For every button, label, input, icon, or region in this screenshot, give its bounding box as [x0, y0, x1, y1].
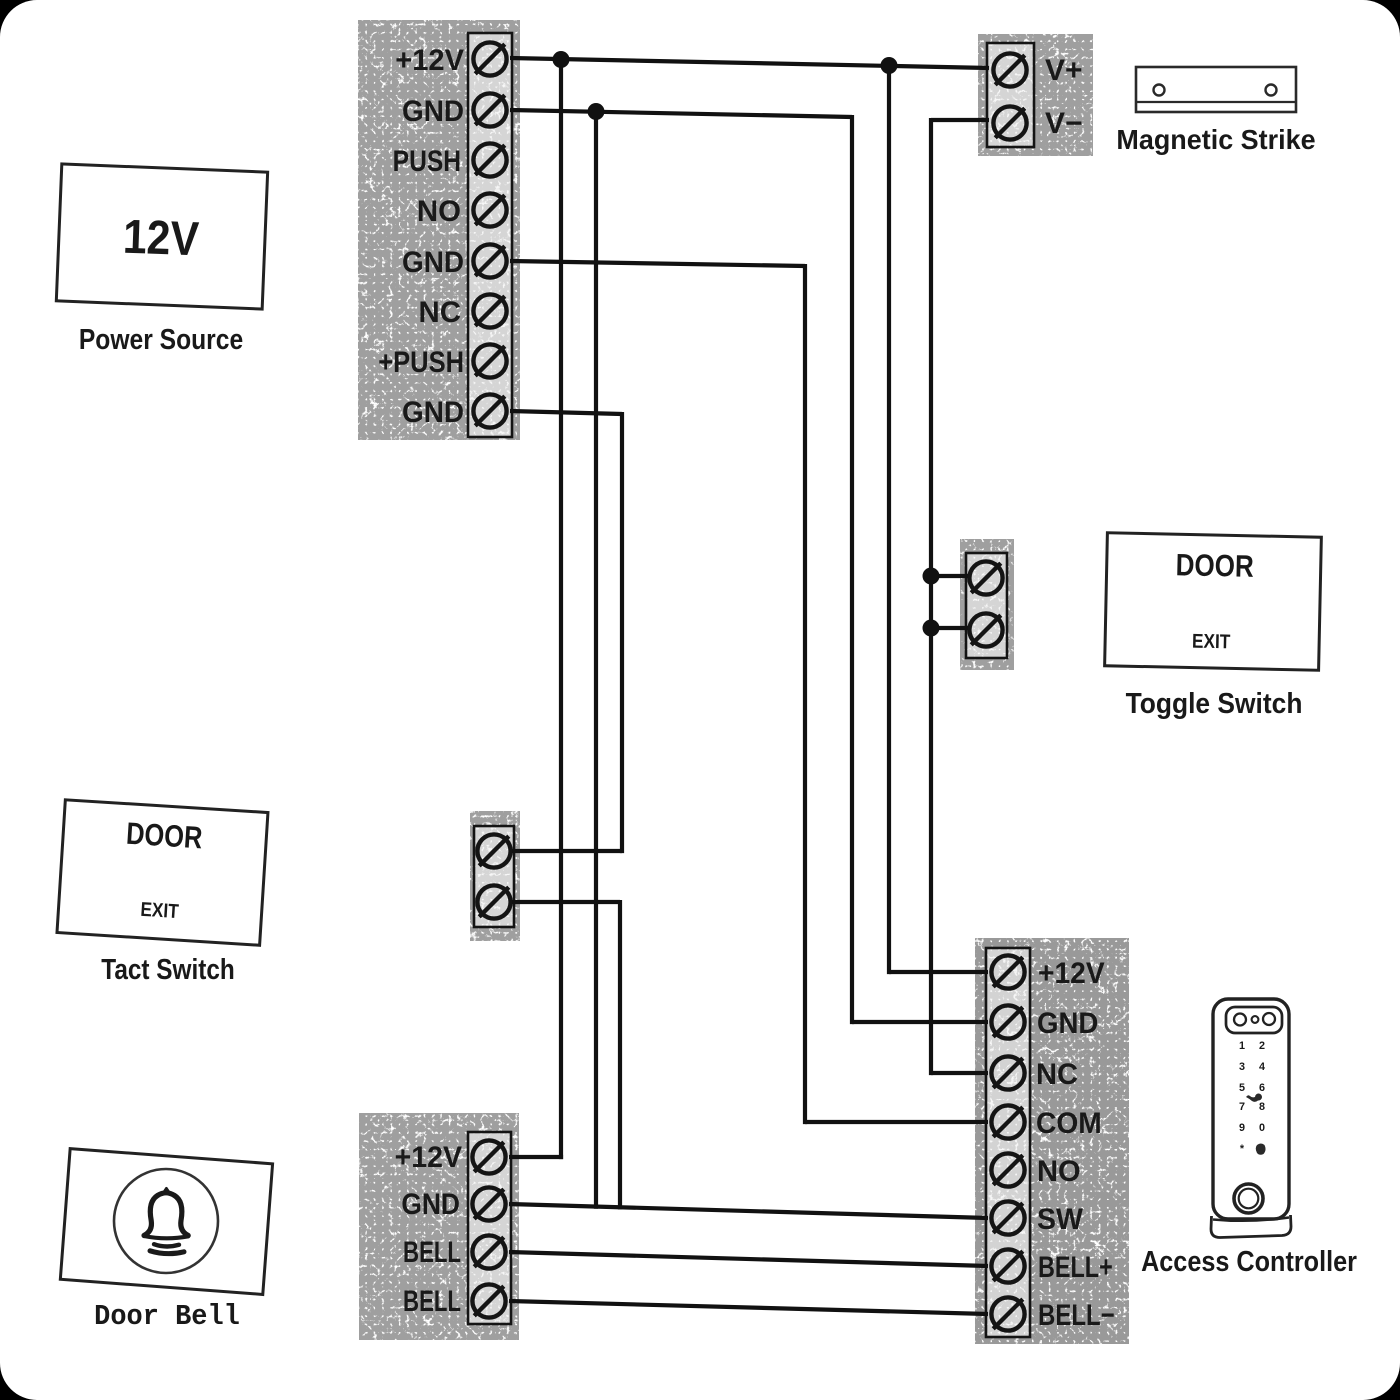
- J4 screws: [477, 834, 510, 918]
- wire J4 bottom vertical drop to SW bus: [618, 900, 622, 1210]
- J6 terminal strip: [986, 948, 1030, 1337]
- MS1 screw hole left: [1154, 85, 1165, 96]
- wire GND branch vertical to switch-return bus: [594, 110, 598, 1209]
- svg-text:+PUSH: +PUSH: [378, 345, 464, 378]
- wire +12V vertical drop to access controller J6: [887, 62, 891, 974]
- svg-text:GND: GND: [402, 396, 464, 429]
- U1 base pedestal: [1211, 1215, 1291, 1238]
- J3 terminal strip: [966, 553, 1007, 658]
- svg-text:7: 7: [1239, 1101, 1245, 1113]
- svg-text:NO: NO: [417, 195, 461, 228]
- svg-text:Power Source: Power Source: [79, 323, 243, 355]
- wire GND: J1 pin2 horizontal: [510, 110, 852, 117]
- svg-text:2: 2: [1259, 1040, 1265, 1052]
- svg-text:PUSH: PUSH: [393, 144, 461, 178]
- U1 sensor circle right: [1263, 1013, 1275, 1025]
- svg-text:Access Controller: Access Controller: [1141, 1244, 1357, 1277]
- wire GND stub into J6 pin GND: [852, 1020, 988, 1024]
- wire SW bus: doorbell GND to J6 SW: [509, 1204, 988, 1218]
- J4 terminal strip: [474, 826, 514, 927]
- U1 keypad digits: [1239, 1040, 1265, 1155]
- J3 screws: [969, 561, 1002, 646]
- svg-text:V−: V−: [1045, 107, 1083, 140]
- svg-text:5: 5: [1239, 1082, 1245, 1094]
- J5 speckled pad: [359, 1113, 519, 1340]
- wire BELL-: doorbell BELL to J6 BELL-: [509, 1301, 988, 1314]
- J1 terminal strip: [468, 33, 512, 437]
- junction dot +12V branch A: [553, 51, 570, 68]
- U1 bell button outer: [1234, 1184, 1263, 1213]
- svg-text:Toggle Switch: Toggle Switch: [1126, 687, 1303, 719]
- MS1 body plate: [1136, 67, 1296, 112]
- svg-text:+12V: +12V: [395, 1141, 463, 1174]
- J2 screws: [993, 53, 1026, 139]
- U1 body: [1213, 999, 1289, 1219]
- svg-text:EXIT: EXIT: [140, 898, 180, 923]
- svg-text:BELL: BELL: [403, 1284, 461, 1318]
- svg-text:GND: GND: [402, 246, 464, 279]
- svg-text:+12V: +12V: [395, 44, 464, 77]
- svg-text:DOOR: DOOR: [1175, 548, 1254, 584]
- J4 speckled pad: [470, 811, 520, 941]
- U1 hash key blob: [1256, 1144, 1266, 1155]
- wire +12V: controller J1 pin1 to strike V+ (horizontal): [510, 58, 989, 68]
- svg-text:GND: GND: [402, 95, 464, 128]
- wire +12V stub into J6 pin +12V: [889, 970, 988, 974]
- U1 sensor circle left: [1234, 1014, 1246, 1026]
- S2 box outline: [1105, 533, 1322, 670]
- svg-text:0: 0: [1259, 1122, 1265, 1134]
- wire stub toggle switch J3 top: [931, 574, 968, 578]
- J6 pin labels: [1036, 957, 1115, 1331]
- wire GND(exit) vertical drop to tact switch terminal J4: [620, 412, 624, 853]
- svg-text:NO: NO: [1037, 1155, 1081, 1188]
- J5 pin labels: [395, 1141, 463, 1317]
- wire GND(lock) vertical drop to J6 COM: [803, 264, 807, 1124]
- svg-text:Door Bell: Door Bell: [94, 1301, 240, 1333]
- MS1 screw hole right: [1266, 85, 1277, 96]
- svg-text:DOOR: DOOR: [125, 816, 203, 856]
- svg-text:BELL: BELL: [403, 1235, 461, 1269]
- svg-text:SW: SW: [1037, 1203, 1083, 1236]
- svg-text:COM: COM: [1036, 1107, 1102, 1140]
- wire GND(exit): J1 pin8 horizontal: [510, 411, 622, 414]
- wire V- stub from strike block J2: [931, 118, 989, 122]
- J6 screws pins 1-8: [991, 955, 1024, 1330]
- U1 sensor circle mid: [1252, 1016, 1259, 1023]
- svg-text:+12V: +12V: [1038, 957, 1105, 990]
- wire BELL+: doorbell BELL to J6 BELL+: [509, 1252, 988, 1266]
- J1 screws pins 1-8: [473, 42, 506, 427]
- BZ1 box outline: [60, 1149, 272, 1295]
- wire GND vertical drop to J6 GND: [850, 115, 854, 1024]
- U1 base top line: [1213, 1218, 1289, 1221]
- U1 top sensor panel: [1226, 1007, 1282, 1033]
- svg-text:12V: 12V: [122, 209, 200, 265]
- junction dot +12V branch B: [881, 57, 898, 74]
- J1 pin labels: [378, 44, 464, 430]
- J3 speckled pad: [960, 539, 1014, 670]
- svg-text:1: 1: [1239, 1040, 1245, 1052]
- junction dot V- toggle bottom: [923, 620, 940, 637]
- junction dot V- toggle top: [923, 568, 940, 585]
- svg-text:EXIT: EXIT: [1192, 629, 1231, 652]
- PS1 12V box outline: [56, 164, 267, 309]
- wire NC stub into J6 pin NC: [931, 1071, 988, 1075]
- wire V- vertical to toggle switch and J6 NC: [929, 118, 933, 1075]
- svg-text:BELL−: BELL−: [1038, 1297, 1115, 1331]
- svg-text:V+: V+: [1045, 54, 1083, 87]
- svg-text:Magnetic Strike: Magnetic Strike: [1116, 124, 1315, 155]
- svg-text:BELL+: BELL+: [1038, 1250, 1113, 1283]
- J5 terminal strip: [468, 1132, 511, 1324]
- J2 pin labels V+ V-: [1045, 54, 1083, 140]
- J2 terminal strip: [987, 43, 1034, 147]
- svg-text:Tact Switch: Tact Switch: [101, 953, 234, 985]
- svg-text:9: 9: [1239, 1122, 1245, 1134]
- svg-text:GND: GND: [1037, 1007, 1098, 1040]
- svg-text:GND: GND: [401, 1186, 460, 1220]
- U1 keypad smudge mark: [1246, 1094, 1262, 1102]
- wire stub J4 top screw: [512, 849, 622, 853]
- wire GND(lock) stub into J6 pin COM: [805, 1120, 988, 1124]
- J6 speckled pad: [975, 938, 1129, 1344]
- MS1 lip line: [1136, 101, 1296, 103]
- svg-text:6: 6: [1259, 1082, 1265, 1094]
- wire GND(lock): J1 pin5 horizontal: [510, 261, 805, 266]
- J1 speckled pad: [358, 20, 520, 440]
- svg-text:NC: NC: [419, 296, 461, 329]
- junction dot GND branch: [588, 103, 605, 120]
- wire J4 bottom screw stub: [512, 900, 620, 904]
- J5 screws: [472, 1140, 505, 1317]
- svg-text:4: 4: [1259, 1061, 1265, 1073]
- svg-text:8: 8: [1259, 1101, 1265, 1113]
- J2 speckled pad: [978, 34, 1093, 156]
- wire +12V stub into doorbell block J5: [509, 1155, 563, 1159]
- U1 bell button inner: [1239, 1189, 1259, 1209]
- BZ1 bell glyph: [144, 1188, 188, 1253]
- svg-text:3: 3: [1239, 1061, 1245, 1073]
- S1 box outline: [57, 800, 268, 945]
- wire stub toggle switch J3 bottom: [931, 626, 968, 630]
- BZ1 button circle: [114, 1169, 218, 1273]
- wire +12V vertical drop to doorbell supply: [559, 58, 563, 1159]
- svg-text:NC: NC: [1036, 1058, 1078, 1091]
